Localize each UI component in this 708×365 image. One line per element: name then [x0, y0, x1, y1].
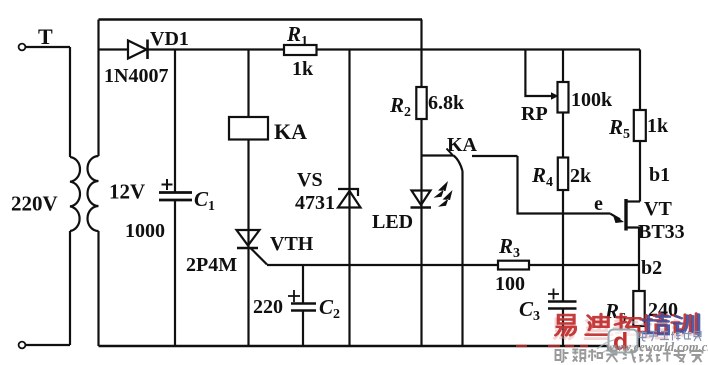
relay coil KA	[229, 50, 307, 347]
svg-text:1000: 1000	[125, 220, 165, 242]
capacitor C1	[125, 50, 215, 347]
svg-text:6.8k: 6.8k	[428, 92, 465, 114]
watermark blue eeworld text (stylized)	[639, 331, 701, 342]
potentiometer RP	[521, 50, 613, 158]
svg-text:220V: 220V	[11, 192, 58, 216]
resistor R3	[495, 234, 529, 295]
capacitor C2	[253, 265, 340, 346]
resistor R5	[608, 50, 669, 202]
svg-text:C1: C1	[194, 187, 215, 214]
main +V rail wire	[99, 48, 641, 50]
transformer T secondary winding	[97, 20, 99, 157]
resistor R2	[389, 87, 465, 120]
svg-text:b1: b1	[649, 164, 670, 186]
watermark red title (stylized) ghost	[554, 318, 697, 339]
svg-text:C2: C2	[319, 295, 340, 322]
svg-text:1k: 1k	[292, 58, 314, 80]
top rail wire	[99, 18, 423, 20]
wire top terminal to primary	[26, 46, 71, 48]
svg-text:VD1: VD1	[150, 28, 189, 50]
svg-text:R5: R5	[608, 115, 630, 142]
svg-text:KA: KA	[274, 119, 307, 144]
resistor R6	[604, 291, 678, 346]
svg-text:1k: 1k	[647, 115, 669, 137]
svg-text:2P4M: 2P4M	[186, 254, 237, 276]
svg-text:100k: 100k	[571, 89, 613, 111]
diode VD1	[104, 28, 189, 87]
wire R2 branch from top rail	[420, 20, 422, 88]
svg-text:100: 100	[495, 273, 525, 295]
svg-text:2k: 2k	[570, 165, 592, 187]
svg-text:RP: RP	[521, 103, 548, 125]
svg-text:R2: R2	[389, 93, 411, 120]
watermark logo box	[597, 328, 638, 356]
svg-text:220: 220	[253, 296, 283, 318]
transformer T primary winding	[69, 47, 71, 157]
bottom rail wire	[99, 345, 641, 347]
svg-text:KA: KA	[447, 134, 478, 156]
svg-text:4731: 4731	[295, 192, 335, 214]
wire bottom terminal to primary	[26, 344, 70, 346]
svg-text:VTH: VTH	[270, 233, 314, 255]
svg-text:12V: 12V	[109, 180, 145, 204]
svg-text:R3: R3	[498, 234, 520, 261]
svg-text:LED: LED	[372, 211, 413, 233]
svg-text:1N4007: 1N4007	[104, 65, 168, 87]
wire R2 to LED to bottom rail	[420, 119, 422, 346]
resistor R4	[531, 158, 592, 302]
svg-text:R4: R4	[531, 163, 553, 190]
terminal bottom-left	[19, 342, 26, 349]
zener diode VS 4731	[295, 50, 361, 347]
svg-text:BT33: BT33	[638, 221, 685, 243]
relay contact KA (normally open)	[422, 134, 518, 346]
svg-text:VT: VT	[644, 198, 672, 220]
svg-text:e: e	[594, 193, 603, 215]
svg-text:b2: b2	[641, 257, 662, 279]
LED D1	[372, 181, 453, 233]
svg-text:R1: R1	[286, 22, 308, 49]
watermark red dashes	[516, 345, 588, 348]
resistor R1	[284, 22, 317, 80]
watermark blue overprint characters	[643, 314, 698, 335]
watermark red title (stylized)	[556, 313, 697, 335]
gate wire to R3 and b2	[267, 264, 639, 266]
terminal top-left	[19, 44, 26, 51]
watermark gray slogan (stylized)	[556, 349, 703, 363]
svg-text:VS: VS	[297, 169, 323, 191]
svg-text:C3: C3	[519, 297, 540, 324]
unijunction transistor VT BT33	[518, 156, 685, 291]
capacitor C3	[519, 289, 577, 347]
thyristor VTH 2P4M	[186, 230, 314, 276]
svg-text:T: T	[38, 24, 53, 49]
